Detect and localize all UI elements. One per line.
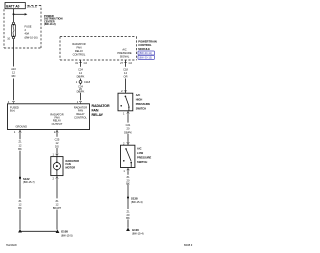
- svg-text:RADIATOR: RADIATOR: [74, 105, 87, 109]
- pin 3 connector cup (relay ground): [14, 130, 22, 135]
- motor M1 radiator fan motor: [51, 157, 63, 176]
- svg-text:C18: C18: [123, 67, 128, 71]
- svg-text:SWITCH: SWITCH: [137, 160, 147, 164]
- svg-text:CONTROL: CONTROL: [138, 43, 152, 47]
- svg-text:LOW: LOW: [137, 151, 144, 155]
- svg-text:RELAY: RELAY: [76, 112, 85, 116]
- wire label C18 14 OR: [123, 67, 128, 78]
- svg-text:(8W-15-4): (8W-15-4): [132, 232, 144, 236]
- pin 1 connector cup: [77, 100, 82, 104]
- label FUSED B(+): [10, 106, 19, 113]
- net RADIATOR FAN RELAY CONTROL: [72, 42, 85, 57]
- svg-text:MOTOR: MOTOR: [66, 166, 76, 170]
- link box (8W-30-15): [138, 55, 155, 59]
- pin 1 connector cup (motor): [53, 153, 59, 157]
- power distribution center (dashed box): [4, 6, 41, 49]
- svg-text:RADIATOR: RADIATOR: [92, 104, 110, 108]
- svg-text:PRESSURE: PRESSURE: [136, 102, 151, 106]
- svg-text:RELAY: RELAY: [75, 49, 84, 53]
- splice S138: [127, 196, 143, 204]
- svg-text:(8W-10-16): (8W-10-16): [25, 36, 38, 40]
- wire splice to ground: [127, 198, 129, 227]
- wire label C21 20 DB/PK: [124, 123, 132, 134]
- pin 2 connector cup (low switch): [123, 142, 130, 146]
- label A/C LOW PRESSURE SWITCH: [137, 147, 152, 165]
- svg-text:GROUND: GROUND: [16, 125, 28, 129]
- svg-text:PRESSURE: PRESSURE: [117, 51, 132, 55]
- svg-text:OUTPUT: OUTPUT: [52, 122, 63, 126]
- link box (8W-30-11): [138, 51, 155, 55]
- wire low switch to splice: [127, 172, 129, 196]
- svg-text:A/C: A/C: [137, 147, 142, 151]
- svg-text:HL23A03I: HL23A03I: [6, 244, 17, 247]
- pin 1 connector cup: [123, 111, 129, 116]
- svg-text:(8W-15-5): (8W-15-5): [61, 233, 73, 237]
- ground G100: [126, 228, 144, 236]
- svg-text:A/C: A/C: [136, 93, 141, 97]
- svg-text:SWITCH: SWITCH: [136, 106, 146, 110]
- svg-text:(8W-15-3): (8W-15-3): [131, 200, 143, 204]
- svg-text:(8W-15-7): (8W-15-7): [23, 180, 35, 184]
- fuse F2 40A: [12, 22, 16, 39]
- switch A/C high pressure switch: [118, 93, 133, 111]
- svg-text:(8W-30-15): (8W-30-15): [139, 56, 152, 60]
- pin 2 connector cup (high switch): [121, 89, 127, 93]
- fuse value label: [25, 24, 38, 39]
- svg-text:FAN: FAN: [78, 109, 83, 113]
- battery feed BATT A0: [5, 3, 25, 9]
- svg-text:BK: BK: [126, 216, 130, 220]
- wire label Z1 20 BK: [126, 175, 130, 185]
- wire relay ground leg: [19, 134, 21, 230]
- wire label Z1 20 BK: [125, 209, 131, 220]
- net A/C PRESSURE SIGNAL: [117, 47, 132, 58]
- pin 2 connector cup (motor bottom): [53, 176, 59, 181]
- svg-text:CONTROL: CONTROL: [73, 52, 86, 56]
- wire high switch to low switch: [127, 114, 129, 141]
- svg-text:C2: C2: [129, 61, 133, 65]
- ground G108: [18, 229, 73, 237]
- svg-text:A/C: A/C: [122, 47, 126, 51]
- label RADIATOR FAN RELAY CONTROL (internal): [74, 105, 87, 119]
- svg-text:S138: S138: [131, 196, 138, 200]
- svg-text:OR: OR: [124, 75, 128, 79]
- svg-text:C118: C118: [84, 80, 91, 84]
- label RADIATOR FAN RELAY (bold): [92, 104, 110, 117]
- svg-text:A10: A10: [11, 67, 16, 71]
- connector C118: [76, 80, 91, 84]
- svg-text:S132: S132: [23, 177, 30, 181]
- svg-text:G108: G108: [61, 230, 68, 234]
- svg-text:C2: C2: [84, 61, 88, 65]
- svg-text:FAN: FAN: [92, 108, 99, 112]
- svg-text:(8W-10-6): (8W-10-6): [27, 6, 37, 8]
- pin 27 C2: [120, 61, 132, 65]
- pin 1 connector cup: [123, 168, 129, 173]
- svg-text:POWERTRAIN: POWERTRAIN: [138, 39, 156, 43]
- wire label C24 20 DB/PK: [77, 84, 85, 93]
- svg-text:BATT A0: BATT A0: [6, 4, 19, 8]
- svg-text:BK/WT: BK/WT: [53, 206, 62, 210]
- splice S132: [19, 177, 35, 184]
- svg-text:C24: C24: [78, 67, 83, 71]
- svg-text:BK: BK: [126, 182, 130, 186]
- pin 2 connector cup (relay output): [54, 130, 59, 135]
- svg-text:BK: BK: [18, 206, 22, 210]
- svg-text:RELAY: RELAY: [92, 113, 104, 117]
- wire label C24 14 DB/PK: [77, 67, 85, 78]
- svg-text:SIGNAL: SIGNAL: [120, 54, 130, 58]
- wire label C25 12 DG: [55, 137, 60, 148]
- node junction dot: [13, 13, 15, 15]
- wire PCM to C118: [80, 60, 82, 80]
- wire motor to ground: [56, 180, 58, 230]
- label RADIATOR FAN RELAY OUTPUT (internal): [50, 112, 63, 126]
- svg-text:DB/PK: DB/PK: [124, 130, 132, 134]
- wire label A10 12 RD: [11, 67, 16, 78]
- svg-text:FAN: FAN: [76, 45, 81, 49]
- wire PCM to A/C high pressure switch: [125, 60, 127, 90]
- svg-text:C25: C25: [55, 137, 60, 141]
- svg-text:FUSE: FUSE: [25, 24, 32, 28]
- feed arrow to other circuits: [14, 13, 28, 15]
- svg-text:DB/PK: DB/PK: [77, 90, 85, 94]
- svg-text:BK: BK: [18, 147, 22, 151]
- svg-text:C21: C21: [126, 123, 131, 127]
- svg-text:RADIATOR: RADIATOR: [72, 42, 85, 46]
- svg-text:DB/PK: DB/PK: [77, 75, 85, 79]
- svg-text:HIGH: HIGH: [136, 97, 143, 101]
- svg-text:DG: DG: [55, 145, 59, 149]
- wire fuse to relay pin 4: [13, 39, 15, 100]
- svg-text:G100: G100: [132, 228, 139, 232]
- svg-text:40A: 40A: [25, 32, 30, 36]
- wire label Z1 12 BK: [17, 199, 22, 210]
- svg-text:B(+): B(+): [10, 109, 15, 113]
- svg-text:CONTROL: CONTROL: [74, 116, 87, 120]
- svg-text:RD: RD: [12, 74, 16, 78]
- svg-text:(8W-30-11): (8W-30-11): [139, 51, 152, 55]
- svg-text:PRESSURE: PRESSURE: [137, 156, 152, 160]
- wire label Z1 12 BK/WT: [53, 199, 62, 210]
- powertrain control module (dashed box): [60, 37, 137, 60]
- wire relay output to motor: [56, 134, 58, 154]
- label POWERTRAIN CONTROL MODULE: [138, 39, 156, 51]
- pin 4 connector cup: [8, 100, 15, 104]
- svg-text:MODULE: MODULE: [138, 47, 150, 51]
- switch A/C low pressure switch: [121, 145, 135, 167]
- label A/C HIGH PRESSURE SWITCH: [136, 93, 151, 111]
- wire label Z1 12 BK: [18, 140, 22, 151]
- wire battery to fuse: [13, 9, 15, 23]
- svg-text:8W45 9: 8W45 9: [184, 244, 193, 247]
- wire C118 to relay: [80, 83, 82, 100]
- pin 31 C2: [75, 61, 87, 65]
- svg-text:(8W-10-2): (8W-10-2): [44, 22, 56, 26]
- relay box (radiator fan relay): [8, 104, 90, 130]
- label RADIATOR FAN MOTOR: [66, 159, 80, 170]
- label POWER DISTRIBUTION CENTER: [44, 14, 63, 26]
